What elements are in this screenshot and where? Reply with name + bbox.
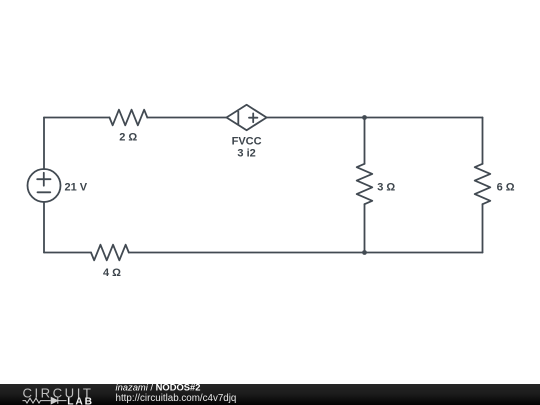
wire FVCC to top-right corner <box>267 117 483 119</box>
svg-text:2 Ω: 2 Ω <box>119 132 137 144</box>
wire top-left (node from V1 top to R1) <box>44 117 110 119</box>
resistor R3 6Ω zigzag <box>475 164 491 204</box>
wire R1 to FVCC <box>147 117 226 119</box>
logo diode <box>51 397 66 403</box>
wire bottom (R4 to right corner) <box>129 252 483 254</box>
resistor R3 6Ω branch: lower lead <box>482 204 484 252</box>
wire left vertical lower (V1 to bottom wire) <box>43 202 45 253</box>
dependent source FVCC (diamond with - and +) <box>227 105 267 130</box>
svg-text:FVCC: FVCC <box>232 136 262 148</box>
svg-text:4 Ω: 4 Ω <box>103 267 121 279</box>
voltage source V1 21 V (circle with + / -) <box>28 169 61 202</box>
resistor R4 4Ω zigzag <box>91 245 129 261</box>
node junction top (R2 tap on top wire) <box>362 115 367 120</box>
resistor R2 3Ω branch: lower lead <box>364 204 366 252</box>
svg-text:3 Ω: 3 Ω <box>377 181 395 193</box>
svg-text:6 Ω: 6 Ω <box>497 181 515 193</box>
resistor R2 3Ω zigzag <box>357 164 373 204</box>
wire bottom-left (V1 to R4) <box>44 252 91 254</box>
logo resistor zigzag <box>23 398 51 403</box>
resistor R2 3Ω branch: upper lead <box>364 118 366 164</box>
svg-text:3 i2: 3 i2 <box>237 148 255 160</box>
svg-text:inazami / NODOS#2: inazami / NODOS#2 <box>116 382 201 393</box>
resistor R1 2Ω zigzag <box>110 110 148 126</box>
svg-text:21 V: 21 V <box>64 181 87 193</box>
svg-text:http://circuitlab.com/c4v7djq: http://circuitlab.com/c4v7djq <box>116 393 237 404</box>
resistor R3 6Ω branch: upper lead <box>482 118 484 164</box>
svg-text:LAB: LAB <box>67 396 92 405</box>
wire left vertical upper (top wire to V1) <box>43 118 45 170</box>
node junction bottom (R2 tap on bottom wire) <box>362 250 367 255</box>
